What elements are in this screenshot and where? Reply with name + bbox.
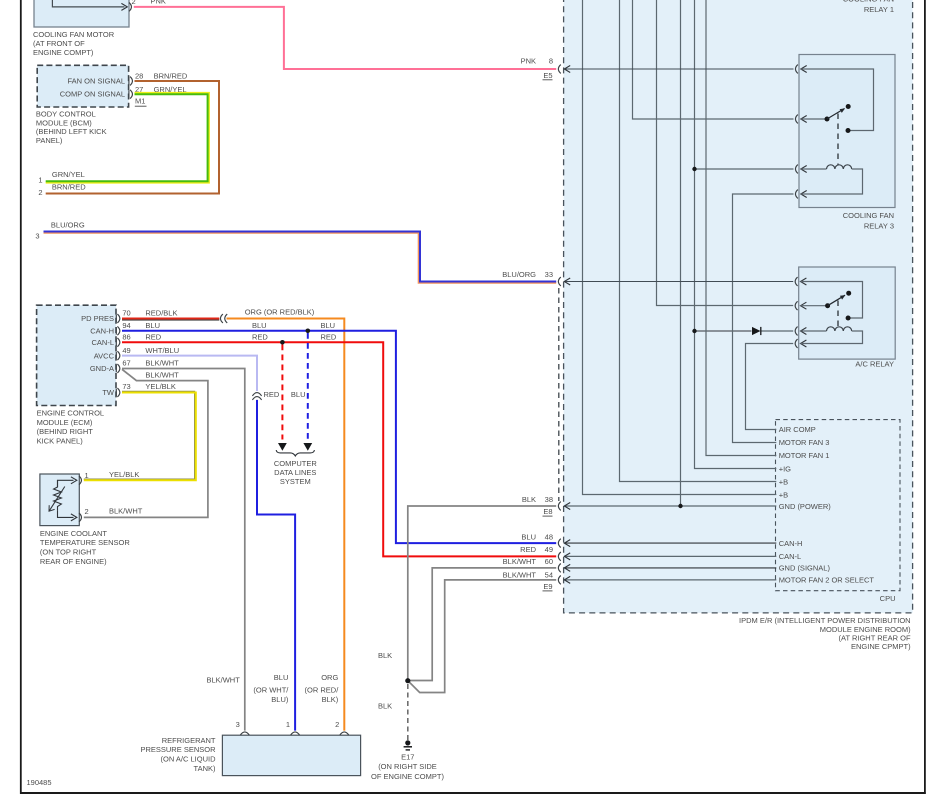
- A/C relay pin 4 connector: [795, 339, 806, 348]
- svg-text:BLU/ORG: BLU/ORG: [502, 270, 536, 279]
- IPDM edge connector E5 pin 8: [558, 65, 570, 74]
- cooling fan motor pin 2 connector: [129, 3, 131, 12]
- junction CAN-L data line: [280, 340, 285, 345]
- junction relay3 coil / +IG: [692, 167, 696, 171]
- svg-text:86: 86: [122, 333, 130, 342]
- svg-text:BLU: BLU: [521, 532, 536, 541]
- border frame bottom: [20, 792, 926, 794]
- svg-text:BLU: BLU: [252, 321, 267, 330]
- svg-text:67: 67: [122, 359, 130, 368]
- svg-text:COMPUTER: COMPUTER: [274, 459, 318, 468]
- svg-text:ENGINE COMPT): ENGINE COMPT): [33, 48, 94, 57]
- refrigerant sensor pin 2 connector: [340, 732, 349, 735]
- temp sensor caption: [40, 529, 130, 566]
- svg-text:70: 70: [122, 309, 130, 318]
- svg-text:BRN/RED: BRN/RED: [154, 72, 188, 81]
- BCM caption: [36, 110, 107, 145]
- label pin 1 GRN/YEL: [38, 170, 85, 184]
- svg-text:MOTOR FAN 1: MOTOR FAN 1: [779, 451, 830, 460]
- wire: PNK internal to relay3 pin1: [565, 68, 794, 70]
- thermistor symbol: [49, 480, 65, 511]
- svg-text:BLK: BLK: [522, 495, 536, 504]
- svg-text:BLK/WHT: BLK/WHT: [145, 359, 179, 368]
- svg-text:RELAY 1: RELAY 1: [864, 5, 894, 14]
- A/C relay pin 3 connector: [795, 327, 806, 336]
- svg-text:BLK/WHT: BLK/WHT: [503, 557, 537, 566]
- IPDM E/R module box (dashed, filled): [564, 0, 913, 613]
- ECM pin 70 connector: [116, 314, 120, 323]
- underbrace below data line arrows: [276, 450, 314, 456]
- svg-text:CAN-L: CAN-L: [91, 338, 114, 347]
- svg-text:RED: RED: [264, 390, 280, 399]
- svg-text:BLU: BLU: [274, 673, 289, 682]
- wire: relay3 coil feed from +IG vertical: [695, 168, 794, 170]
- svg-text:BLK/WHT: BLK/WHT: [503, 571, 537, 580]
- wire YEL/BLK from ECM pin 73 to temp sensor pin 1: [84, 391, 196, 480]
- svg-text:BLU: BLU: [145, 321, 160, 330]
- wire: vertical to MOTOR FAN 1: [706, 0, 776, 456]
- svg-text:94: 94: [122, 321, 130, 330]
- labels BLU BLU on CAN-H: [252, 321, 335, 330]
- svg-text:(OR RED/: (OR RED/: [305, 686, 340, 695]
- BCM pin 28 connector: [129, 77, 133, 86]
- temp sensor internal wire pin 2: [58, 510, 77, 521]
- wire: +B vertical 2 to CPU: [583, 0, 777, 495]
- svg-text:M1: M1: [135, 97, 145, 106]
- cooling fan relay 1 label (box cut off above): [843, 0, 894, 14]
- svg-text:RED: RED: [520, 545, 536, 554]
- svg-text:PNK: PNK: [151, 0, 166, 6]
- CPU box (dashed): [776, 420, 901, 591]
- svg-text:DATA LINES: DATA LINES: [274, 468, 316, 477]
- svg-text:KICK PANEL): KICK PANEL): [37, 436, 84, 445]
- wire ORG continuation to sensor pin 2: [227, 319, 345, 731]
- border frame right: [924, 0, 926, 794]
- label pin 3 BLU/ORG: [35, 221, 84, 241]
- svg-text:COOLING FAN MOTOR: COOLING FAN MOTOR: [33, 30, 115, 39]
- E17 caption: [371, 752, 444, 781]
- svg-text:(AT RIGHT REAR OF: (AT RIGHT REAR OF: [839, 633, 912, 642]
- wire GRN/YEL from BCM pin 27: [46, 93, 209, 183]
- svg-text:SYSTEM: SYSTEM: [280, 477, 311, 486]
- svg-text:BLK): BLK): [322, 695, 339, 704]
- A/C relay internal: pin1 feed to NO contact: [801, 282, 863, 321]
- ECM pin 67 connector: [116, 364, 120, 373]
- refrigerant sensor pin number labels: [236, 720, 240, 729]
- IPDM edge connector pin 60: [558, 564, 570, 573]
- svg-text:(ON RIGHT SIDE: (ON RIGHT SIDE: [378, 762, 437, 771]
- svg-text:3: 3: [35, 232, 39, 241]
- ECM pin 73 connector: [116, 388, 120, 397]
- svg-text:MOTOR FAN 3: MOTOR FAN 3: [779, 438, 830, 447]
- relay 3 pin 1 connector: [795, 65, 806, 74]
- temp sensor pin 2 connector: [79, 513, 81, 522]
- BCM box (dashed): [37, 65, 128, 107]
- wire BLK/WHT from ECM pin 67 to sensor pin 3: [122, 369, 245, 731]
- svg-text:CAN-H: CAN-H: [779, 539, 803, 548]
- svg-text:(ON TOP RIGHT: (ON TOP RIGHT: [40, 548, 97, 557]
- ECM pin 86 connector: [116, 338, 120, 347]
- wire BLU continuation to sensor pin 1: [257, 400, 295, 731]
- svg-text:BLK/WHT: BLK/WHT: [206, 675, 240, 684]
- relay 3 internal: switch common wire: [801, 117, 830, 122]
- svg-text:E17: E17: [401, 752, 414, 761]
- svg-text:PANEL): PANEL): [36, 136, 63, 145]
- ECM pin wire labels: [122, 309, 177, 318]
- svg-text:TEMPERATURE SENSOR: TEMPERATURE SENSOR: [40, 538, 130, 547]
- svg-text:MOTOR FAN 2 OR SELECT: MOTOR FAN 2 OR SELECT: [779, 576, 875, 585]
- ECM pin names: [81, 314, 115, 397]
- svg-text:+B: +B: [779, 477, 788, 486]
- svg-text:BLK: BLK: [378, 702, 392, 711]
- inner connector dashed line segment: [558, 288, 560, 501]
- svg-text:1: 1: [38, 175, 42, 184]
- labels RED / BLU beside data lines: [264, 390, 306, 399]
- relay 3 switch blade: [827, 104, 851, 119]
- red dashed data line: [278, 345, 287, 451]
- temp sensor pin 1 connector: [79, 476, 81, 485]
- wire BLK/WHT 60 GND SIGNAL to E17 junction: [410, 568, 556, 681]
- A/C relay box: [799, 267, 896, 359]
- IPDM E/R caption: [739, 616, 911, 651]
- cooling fan motor caption: [33, 30, 115, 57]
- BCM pin labels 28 BRN/RED, 27 GRN/YEL, M1: [135, 72, 188, 81]
- svg-text:ENGINE COOLANT: ENGINE COOLANT: [40, 529, 108, 538]
- svg-text:BLK/WHT: BLK/WHT: [145, 371, 179, 380]
- svg-text:RED: RED: [145, 333, 161, 342]
- wire: A/C coil feed from +IG vertical with diode: [695, 330, 794, 332]
- svg-text:GND-A: GND-A: [90, 364, 114, 373]
- cooling fan motor box (cut off at top): [34, 0, 129, 27]
- svg-text:ORG (OR RED/BLK): ORG (OR RED/BLK): [245, 307, 315, 316]
- svg-text:E9: E9: [543, 582, 552, 591]
- svg-text:(AT FRONT OF: (AT FRONT OF: [33, 39, 85, 48]
- svg-text:PD PRES: PD PRES: [81, 314, 114, 323]
- svg-text:RELAY 3: RELAY 3: [864, 221, 894, 230]
- svg-text:COOLING FAN: COOLING FAN: [843, 0, 894, 4]
- wire: MOTOR FAN 2 internal: [565, 579, 777, 581]
- computer data lines caption: [274, 459, 318, 486]
- svg-text:(BEHIND RIGHT: (BEHIND RIGHT: [37, 427, 94, 436]
- svg-text:54: 54: [545, 571, 553, 580]
- svg-text:(BEHIND LEFT KICK: (BEHIND LEFT KICK: [36, 127, 107, 136]
- wire BLU CAN-H from ECM pin 94 to IPDM pin 48: [122, 331, 556, 543]
- svg-text:73: 73: [122, 382, 130, 391]
- A/C relay internal: switch common wire: [801, 303, 831, 308]
- relay 3 coil: [801, 165, 863, 194]
- wire BLK 38 GND POWER to E17 junction: [408, 506, 556, 679]
- relay 3 pin 4 connector: [795, 190, 806, 199]
- wire: +IG vertical: [695, 0, 777, 469]
- inline connector on PD PRES wire: [220, 314, 227, 323]
- svg-text:BLK: BLK: [378, 651, 392, 660]
- svg-text:FAN ON SIGNAL: FAN ON SIGNAL: [67, 76, 125, 85]
- svg-text:33: 33: [545, 270, 553, 279]
- wire WHT/BLU from ECM pin 49 (AVCC): [122, 356, 257, 391]
- relay 3 internal: pin1 feed to NO contact: [801, 69, 874, 133]
- temp sensor pin labels: [85, 470, 140, 480]
- svg-text:GND (POWER): GND (POWER): [779, 502, 832, 511]
- relay 3 pin 2 connector: [795, 115, 806, 124]
- svg-text:REFRIGERANT: REFRIGERANT: [162, 736, 216, 745]
- IPDM edge connector pin 49: [558, 552, 570, 561]
- refrigerant sensor pin 3 connector: [240, 732, 249, 735]
- svg-text:ENGINE CONTROL: ENGINE CONTROL: [37, 409, 105, 418]
- svg-text:TANK): TANK): [194, 764, 216, 773]
- junction CAN-H data line: [306, 329, 311, 334]
- A/C relay pin 2 connector: [795, 301, 806, 310]
- ECM pin 94 connector: [116, 326, 120, 335]
- svg-text:49: 49: [122, 346, 130, 355]
- relay 3 switch-coil dashed link: [837, 114, 839, 166]
- labels RED RED on CAN-L: [252, 333, 337, 342]
- temp sensor internal wire pin 1: [58, 477, 77, 487]
- svg-text:48: 48: [545, 532, 553, 541]
- svg-text:PRESSURE SENSOR: PRESSURE SENSOR: [140, 745, 216, 754]
- svg-text:BLU: BLU: [321, 321, 336, 330]
- wire: vertical to A/C relay switch pin: [657, 0, 794, 306]
- CPU label: [880, 594, 896, 603]
- svg-text:COMP ON SIGNAL: COMP ON SIGNAL: [60, 89, 125, 98]
- svg-text:49: 49: [545, 545, 553, 554]
- svg-text:MODULE (BCM): MODULE (BCM): [36, 118, 92, 127]
- svg-text:REAR OF ENGINE): REAR OF ENGINE): [40, 557, 107, 566]
- IPDM edge connector pin 33: [558, 277, 570, 286]
- diode D1: [752, 327, 761, 335]
- cooling fan motor internal wire to pin 2: [52, 0, 127, 10]
- svg-text:GND (SIGNAL): GND (SIGNAL): [779, 564, 831, 573]
- svg-text:RED/BLK: RED/BLK: [145, 309, 177, 318]
- ECM caption: [37, 409, 105, 446]
- wire 3 BLU/ORG to IPDM pin 33: [44, 232, 557, 283]
- refrigerant pressure sensor box: [222, 735, 360, 775]
- svg-text:A/C RELAY: A/C RELAY: [855, 359, 894, 368]
- svg-text:TW: TW: [102, 388, 115, 397]
- svg-text:RED: RED: [252, 333, 268, 342]
- svg-text:BLU/ORG: BLU/ORG: [51, 221, 85, 230]
- label ORG (OR RED/BLK): [245, 307, 315, 316]
- svg-text:1: 1: [286, 720, 290, 729]
- IPDM edge connector E8 pin 38: [558, 502, 570, 511]
- wire: A/C pin4 to AIR COMP: [746, 344, 794, 430]
- svg-text:(ON A/C LIQUID: (ON A/C LIQUID: [160, 755, 216, 764]
- wire: relay3 pin4 to MOTOR FAN 3: [733, 194, 794, 443]
- wire: BLU/ORG internal to A/C pin1: [565, 281, 794, 283]
- wire PNK from motor to IPDM E5 pin 8: [134, 7, 556, 69]
- refrigerant sensor pin 1 connector: [291, 732, 300, 735]
- svg-text:AIR COMP: AIR COMP: [779, 425, 816, 434]
- svg-text:ORG: ORG: [321, 673, 338, 682]
- svg-text:WHT/BLU: WHT/BLU: [145, 346, 179, 355]
- svg-text:MODULE (ECM): MODULE (ECM): [37, 418, 93, 427]
- svg-text:CAN-H: CAN-H: [90, 327, 114, 336]
- svg-text:BLU: BLU: [291, 390, 306, 399]
- svg-text:+IG: +IG: [779, 464, 791, 473]
- svg-text:+B: +B: [779, 490, 788, 499]
- wire: vertical to relay 3 switch pin: [633, 0, 794, 119]
- svg-text:YEL/BLK: YEL/BLK: [145, 382, 175, 391]
- motor pin 2 label: [132, 0, 136, 6]
- svg-text:AVCC: AVCC: [94, 351, 115, 360]
- svg-text:GRN/YEL: GRN/YEL: [52, 170, 85, 179]
- A/C relay label: [855, 359, 894, 368]
- engine coolant temperature sensor box: [40, 474, 79, 526]
- sheet number 190485: [27, 778, 52, 787]
- svg-text:CPU: CPU: [880, 594, 896, 603]
- svg-text:ENGINE CPMPT): ENGINE CPMPT): [851, 642, 911, 651]
- wire: CAN-H internal: [565, 542, 777, 544]
- refrigerant sensor wire labels: [206, 675, 240, 684]
- inline connector on AVCC wire: [252, 393, 261, 400]
- PNK label (top, clipped): [151, 0, 166, 6]
- wire: GND SIGNAL internal: [565, 567, 777, 569]
- labels BLK above and below junction: [378, 651, 392, 660]
- svg-text:190485: 190485: [27, 778, 52, 787]
- wire RED CAN-L from ECM pin 86 to IPDM pin 49: [122, 342, 556, 556]
- svg-text:(OR WHT/: (OR WHT/: [253, 686, 289, 695]
- dashed BLK wire to ground: [407, 684, 409, 741]
- cooling fan relay 3 label: [843, 211, 894, 230]
- ECM pin 49 connector: [116, 351, 120, 360]
- svg-text:BRN/RED: BRN/RED: [52, 183, 86, 192]
- wire: GND (POWER) internal: [565, 505, 777, 507]
- E17 junction node: [405, 678, 410, 683]
- svg-text:8: 8: [549, 57, 553, 66]
- wire RED/BLK from ECM pin 70: [122, 319, 219, 320]
- wire: CAN-L internal: [565, 555, 777, 557]
- IPDM edge connector pin 48: [558, 539, 570, 548]
- wire BRN/RED from BCM pin 28: [46, 81, 219, 194]
- svg-text:2: 2: [85, 507, 89, 516]
- svg-text:E5: E5: [543, 71, 552, 80]
- A/C relay switch-coil dashed link: [837, 301, 839, 328]
- border frame left: [20, 0, 22, 794]
- svg-text:2: 2: [38, 188, 42, 197]
- refrigerant sensor caption: [140, 736, 216, 773]
- svg-text:E8: E8: [543, 507, 552, 516]
- BCM pin 27 connector: [129, 90, 133, 99]
- wire BLK/WHT second from GND-A to temp sensor pin 2: [84, 369, 208, 517]
- svg-text:OF ENGINE COMPT): OF ENGINE COMPT): [371, 772, 444, 781]
- label pin 2 BRN/RED: [38, 183, 86, 197]
- svg-text:RED: RED: [321, 333, 337, 342]
- svg-text:CAN-L: CAN-L: [779, 552, 802, 561]
- cooling fan relay 3 box: [799, 55, 895, 208]
- junction A/C coil / +IG: [692, 329, 696, 333]
- svg-text:PNK: PNK: [521, 57, 536, 66]
- svg-text:38: 38: [545, 495, 553, 504]
- svg-text:60: 60: [545, 557, 553, 566]
- A/C relay pin 1 connector: [795, 277, 806, 286]
- svg-text:2: 2: [132, 0, 136, 6]
- wire: vertical to GND POWER junction: [680, 0, 682, 506]
- wire: +B vertical 1 to CPU: [620, 0, 777, 482]
- svg-text:BLU): BLU): [271, 695, 289, 704]
- IPDM edge connector E9 pin 54: [558, 576, 570, 585]
- svg-text:COOLING FAN: COOLING FAN: [843, 211, 894, 220]
- svg-text:3: 3: [236, 720, 240, 729]
- junction GND POWER: [678, 504, 682, 508]
- svg-text:BODY CONTROL: BODY CONTROL: [36, 110, 96, 119]
- A/C relay switch blade: [828, 291, 852, 306]
- CPU pin labels: [779, 425, 875, 584]
- BCM pin names: [60, 76, 125, 98]
- svg-text:BLK/WHT: BLK/WHT: [109, 507, 143, 516]
- svg-text:YEL/BLK: YEL/BLK: [109, 470, 139, 479]
- blue dashed data line: [303, 333, 312, 451]
- labels at IPDM left edge: [521, 57, 553, 80]
- A/C relay coil: [801, 327, 863, 344]
- relay 3 pin 3 connector: [795, 165, 806, 174]
- svg-text:2: 2: [335, 720, 339, 729]
- ECM box (dashed): [37, 305, 116, 405]
- wire BLK/WHT 54 MOTOR FAN 2 to E17 junction: [409, 580, 556, 693]
- ground symbol E17: [404, 740, 412, 750]
- svg-text:28: 28: [135, 72, 143, 81]
